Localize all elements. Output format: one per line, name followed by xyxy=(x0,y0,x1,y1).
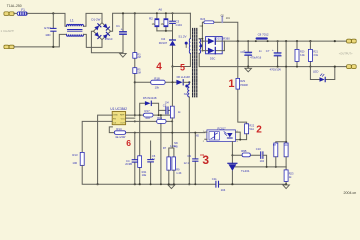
junction rail R21 xyxy=(309,40,311,42)
connector J1 pin1 xyxy=(4,12,14,16)
wire R14 row xyxy=(109,127,205,133)
svg-text:104: 104 xyxy=(260,159,265,163)
TL431 U2 xyxy=(228,163,250,173)
resistor R13 xyxy=(72,152,216,184)
svg-text:D1-2W: D1-2W xyxy=(91,18,100,22)
svg-text:1 CHART!: 1 CHART! xyxy=(1,29,15,33)
junction VCC chain top xyxy=(134,12,136,14)
junction led return xyxy=(334,66,336,68)
svg-text:+: + xyxy=(121,27,123,31)
choke L1 core xyxy=(68,30,83,32)
junction VCC node xyxy=(134,81,136,83)
svg-text:R24: R24 xyxy=(200,17,205,21)
wire secondary top xyxy=(199,38,202,40)
secondary winding xyxy=(199,39,200,54)
junction aux return at bus xyxy=(188,183,190,185)
IC U1 xyxy=(112,112,125,125)
varistor RV1 plates xyxy=(51,28,56,31)
junction ref R8 xyxy=(275,166,277,168)
resistor R20 xyxy=(295,41,305,67)
transformer T1 aux winding xyxy=(188,82,190,97)
junction rail C7 xyxy=(277,40,279,42)
junction aux top xyxy=(188,81,190,83)
wire rail into primary top xyxy=(189,13,191,38)
wire L1 top to bridge xyxy=(84,13,103,26)
LED loop xyxy=(310,67,334,80)
svg-text:L1: L1 xyxy=(70,18,74,22)
junction pin1 bus xyxy=(97,183,99,185)
junction C7 return xyxy=(277,66,279,68)
svg-text:D10 SR360: D10 SR360 xyxy=(216,36,230,40)
wire fuse to L1 top xyxy=(27,13,67,26)
svg-text:C8: C8 xyxy=(200,24,204,28)
snubber join wire xyxy=(157,30,173,32)
wire TL431 vertical xyxy=(231,142,233,185)
junction C4 bus xyxy=(139,183,141,185)
junction TL431 bus xyxy=(231,183,233,185)
junction C6 return xyxy=(247,66,249,68)
svg-text:10D: 10D xyxy=(45,33,50,37)
svg-text:R17: R17 xyxy=(145,109,151,113)
svg-text:100: 100 xyxy=(72,161,77,165)
svg-text:10R: 10R xyxy=(145,116,150,120)
svg-text:1.4E: 1.4E xyxy=(170,144,176,148)
wire U1 left pin1 xyxy=(98,115,113,184)
wire bottom AC xyxy=(14,34,67,47)
diode D4 clamp xyxy=(159,31,176,67)
resistor R22 xyxy=(236,124,255,140)
svg-text:5: 5 xyxy=(180,63,185,73)
junction R20 return xyxy=(296,66,298,68)
svg-text:REF: REF xyxy=(120,115,125,117)
junction secondary anode a xyxy=(201,40,203,42)
svg-text:2M: 2M xyxy=(137,71,140,74)
junction R19 vcc cross xyxy=(134,120,136,122)
dual diode D10 box xyxy=(202,37,224,54)
svg-text:2: 2 xyxy=(256,124,262,135)
svg-text:LED: LED xyxy=(313,69,318,73)
resistor R9 xyxy=(170,144,182,184)
svg-text:14E: 14E xyxy=(142,173,147,177)
ferrite bead L2 xyxy=(256,37,268,39)
resistor R7 xyxy=(163,146,171,184)
svg-text:GND: GND xyxy=(113,115,118,117)
capacitor C6b xyxy=(148,154,156,162)
junction sense bus a xyxy=(168,183,170,185)
svg-text:4C2: 4C2 xyxy=(285,145,290,147)
svg-text:T1AL-250: T1AL-250 xyxy=(7,4,22,8)
svg-text:D5C: D5C xyxy=(210,56,215,60)
connector output plus xyxy=(347,39,357,43)
junction drain R18 xyxy=(172,81,174,83)
bridge diode TL xyxy=(94,24,101,31)
junction C9 top xyxy=(194,132,196,134)
svg-text:R2: R2 xyxy=(149,16,153,20)
junction snubber rail a xyxy=(156,12,158,14)
junction D5 loop right xyxy=(158,114,160,116)
svg-text:3.9k: 3.9k xyxy=(313,54,318,57)
svg-text:FR107: FR107 xyxy=(159,41,168,45)
svg-text:C10: C10 xyxy=(256,147,261,151)
capacitor C10 xyxy=(256,147,267,167)
resistor R5 xyxy=(133,68,141,75)
junction rail C6 xyxy=(247,40,249,42)
wire varistor branch xyxy=(52,13,54,47)
svg-text:2M: 2M xyxy=(137,56,140,59)
svg-text:1.4K: 1.4K xyxy=(176,171,182,175)
svg-text:R23: R23 xyxy=(289,171,294,175)
wire TL431 ref row xyxy=(235,166,286,168)
svg-text:D6 LL4148: D6 LL4148 xyxy=(177,75,191,79)
svg-text:U1 UC3842: U1 UC3842 xyxy=(110,107,127,111)
junction U1 pin VCC xyxy=(134,114,136,116)
svg-text:C7: C7 xyxy=(266,49,270,53)
svg-text:R6B: R6B xyxy=(241,149,246,153)
junction opto R22 xyxy=(239,139,241,141)
svg-text:470uF/16: 470uF/16 xyxy=(250,56,262,60)
junction snubber rail c3 xyxy=(172,12,174,14)
svg-text:OUT: OUT xyxy=(120,123,125,125)
junction VCC bus xyxy=(134,183,136,185)
svg-text:3.9k: 3.9k xyxy=(300,54,305,57)
junction TL431 tap xyxy=(231,154,233,156)
junction drain node xyxy=(171,65,173,67)
junction C9 bus xyxy=(194,183,196,185)
choke L1 top winding xyxy=(67,24,84,26)
svg-text:C4: C4 xyxy=(126,159,130,163)
startup chain wire xyxy=(134,13,136,116)
junction C1 top xyxy=(122,12,124,14)
junction R19 drain vert xyxy=(171,120,173,122)
svg-text:12.1: 12.1 xyxy=(184,161,190,165)
feedback sense vertical xyxy=(285,41,287,142)
connector output minus xyxy=(347,65,357,69)
resistor R19 xyxy=(157,116,166,124)
junction R23 bus xyxy=(285,183,287,185)
wire L1 bottom to bridge xyxy=(84,34,103,47)
junction rail led xyxy=(334,40,336,42)
output rail xyxy=(224,40,346,42)
wire opto feed vertical xyxy=(238,41,247,124)
resistor R14 xyxy=(114,131,125,135)
capacitor C1 xyxy=(116,13,126,52)
svg-text:2C3B: 2C3B xyxy=(125,162,132,166)
wire U1 left pin2 loop R13 xyxy=(82,121,112,152)
junction on top AC wire xyxy=(52,12,54,14)
junction rail snubber xyxy=(237,40,239,42)
wire drain to primary bottom xyxy=(173,53,191,66)
junction D5 loop left xyxy=(139,114,141,116)
resistor R17 xyxy=(144,109,154,120)
svg-text:<OUTPUT>: <OUTPUT> xyxy=(339,52,353,56)
svg-text:F1: F1 xyxy=(21,8,25,12)
wire aux return xyxy=(188,97,190,184)
ground secondary xyxy=(245,68,252,72)
svg-text:PR408: PR408 xyxy=(240,84,248,87)
bridge diode BL xyxy=(94,32,101,39)
junction rail R20 xyxy=(296,40,298,42)
snubber resistor R2a xyxy=(152,13,159,31)
resistor R21 xyxy=(308,41,318,67)
junction VCC vert R14 xyxy=(134,132,136,134)
svg-text:R2S: R2S xyxy=(240,80,245,83)
svg-text:CS: CS xyxy=(113,123,117,125)
wire drain vertical down xyxy=(169,67,174,157)
resistor R16 xyxy=(170,106,174,118)
svg-text:R9: R9 xyxy=(176,167,180,171)
capacitor C11 in bus xyxy=(212,177,226,192)
svg-text:VCC: VCC xyxy=(121,119,126,121)
junction snubber rail b xyxy=(165,12,167,14)
diode D5 loop xyxy=(140,96,159,115)
resistor R2S startup sec xyxy=(236,78,240,89)
junction ref C10 xyxy=(266,166,268,168)
svg-text:1M: 1M xyxy=(161,22,165,26)
svg-text:C1: C1 xyxy=(116,24,120,28)
choke L1 bottom winding xyxy=(67,34,84,36)
svg-text:A6: A6 xyxy=(158,7,162,11)
capacitor C6 xyxy=(240,41,261,67)
svg-text:C9: C9 xyxy=(187,154,191,158)
junction R21 return xyxy=(309,66,311,68)
svg-text:2004.cn: 2004.cn xyxy=(344,191,357,195)
wire U1 out row xyxy=(126,110,171,118)
wire C6b branch xyxy=(150,141,152,184)
junction rail fb xyxy=(285,40,287,42)
wire secondary return xyxy=(199,54,346,67)
capacitor C3 xyxy=(170,13,183,31)
svg-text:4: 4 xyxy=(156,62,162,73)
svg-text:C8 7012: C8 7012 xyxy=(258,33,269,37)
wire VCC vert lower xyxy=(134,133,136,185)
resistor R3 xyxy=(133,53,141,60)
svg-text:51A: 51A xyxy=(249,127,254,131)
ground bus right segment xyxy=(219,183,287,185)
svg-text:6: 6 xyxy=(126,138,131,148)
svg-text:TL431: TL431 xyxy=(241,169,250,173)
ground R23 xyxy=(283,185,290,189)
wire connector to fuse xyxy=(14,12,17,14)
wire fb top bar xyxy=(276,142,286,143)
bridge rectifier D1 diamond xyxy=(94,23,111,40)
ground sense xyxy=(168,185,175,189)
capacitor C9 xyxy=(184,154,198,165)
svg-text:S1.2V: S1.2V xyxy=(178,34,186,38)
wire D10 cathode join xyxy=(223,41,225,51)
snubber resistor R2b xyxy=(161,13,168,31)
ground primary DC xyxy=(120,53,127,57)
junction fb return xyxy=(285,66,287,68)
svg-text:E701: E701 xyxy=(44,26,51,30)
svg-text:4700/10V: 4700/10V xyxy=(270,67,282,71)
bridge diode TR xyxy=(103,24,110,31)
transformer T1 aux polarity dot xyxy=(185,85,188,88)
svg-text:R13: R13 xyxy=(72,153,78,157)
resistor R6B xyxy=(232,149,260,157)
svg-text:10k: 10k xyxy=(155,85,160,89)
optocoupler U3 xyxy=(203,126,240,142)
svg-text:R14: R14 xyxy=(116,127,122,131)
bridge diode BR xyxy=(103,32,110,39)
fuse F1 xyxy=(17,8,27,15)
resistor R23 xyxy=(284,167,294,184)
capacitor tick snubber xyxy=(221,16,223,22)
resistor R8 xyxy=(273,143,278,167)
wire C9 branch xyxy=(194,133,196,185)
resistor R12 xyxy=(284,143,289,167)
junction bottom AC xyxy=(52,46,54,48)
svg-text:1E-1/4W: 1E-1/4W xyxy=(115,135,126,139)
svg-text:101: 101 xyxy=(226,17,231,20)
transformer T1 primary polarity dot xyxy=(185,42,188,45)
wire CT branch xyxy=(160,115,162,184)
LED D12 xyxy=(313,69,325,81)
junction C6b bus xyxy=(150,183,152,185)
secondary polarity dot xyxy=(200,44,203,47)
capacitor C5 xyxy=(163,103,168,113)
wire bridge plus to top rail xyxy=(111,13,191,31)
resistor R18 xyxy=(135,76,177,89)
connector J1 pin2 xyxy=(4,45,14,49)
resistor R4 xyxy=(138,156,147,177)
svg-text:D5 IN4148: D5 IN4148 xyxy=(143,96,157,100)
resistor R24 snubber xyxy=(204,21,214,24)
junction sense bus b xyxy=(173,183,175,185)
diode D6 xyxy=(176,75,190,85)
capacitor C7 xyxy=(259,41,282,71)
svg-text:1: 1 xyxy=(228,78,234,90)
junction snubber join xyxy=(165,30,167,32)
svg-text:+: + xyxy=(272,48,274,52)
svg-text:C11: C11 xyxy=(212,177,217,181)
svg-text:C9: C9 xyxy=(200,153,204,157)
capacitor C4 xyxy=(125,159,137,166)
transformer T1 primary winding xyxy=(189,39,190,54)
svg-text:104: 104 xyxy=(221,188,226,192)
junction fb node xyxy=(285,141,287,143)
svg-text:R7: R7 xyxy=(163,146,167,150)
wire bridge minus to ground line xyxy=(91,31,123,53)
svg-text:1M: 1M xyxy=(152,22,156,26)
svg-text:N4: N4 xyxy=(184,92,188,96)
wire U1 cs row R19 xyxy=(126,120,173,122)
junction drain opto-wire cross xyxy=(171,132,173,134)
svg-text:C104: C104 xyxy=(176,23,183,27)
transformer T1 core xyxy=(193,29,197,97)
wire output snubber loop xyxy=(202,22,237,50)
wire C4 branch xyxy=(139,116,141,184)
